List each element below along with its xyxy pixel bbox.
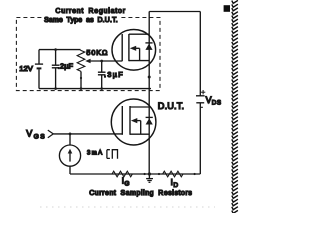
terminal: VDS top bar <box>196 95 205 97</box>
svg-text:V: V <box>26 129 32 139</box>
wire: top wire to right rail <box>149 11 200 13</box>
input terminal VGS chevron <box>48 130 54 138</box>
battery B1 12V <box>35 50 43 89</box>
MOSFET Q1 current regulator <box>112 30 156 71</box>
svg-text:D: D <box>173 182 178 189</box>
minus sign <box>200 106 203 108</box>
junction: ground node <box>148 172 151 175</box>
pulse waveform icon <box>107 150 118 159</box>
junction: RD right lead <box>194 173 196 175</box>
svg-text:Current Regulator: Current Regulator <box>55 8 125 15</box>
svg-text:Current Sampling Resistors: Current Sampling Resistors <box>89 190 192 197</box>
svg-text:12V: 12V <box>19 64 34 73</box>
dashed enclosure box (current regulator) <box>16 18 160 91</box>
junction: wiper node <box>100 60 103 63</box>
svg-text:G: G <box>124 180 129 187</box>
svg-text:Same Type as D.U.T.: Same Type as D.U.T. <box>44 17 118 24</box>
wire: bottom return wire <box>70 173 200 175</box>
capacitor C2 .3uF <box>98 61 106 89</box>
wire: inner top bus from battery to pot <box>39 49 80 51</box>
page edge hatch strip <box>232 0 238 213</box>
junction: current source tap <box>69 133 72 136</box>
junction: Q1 source node dot <box>148 76 151 79</box>
resistor RD (ID sampling) <box>163 171 183 177</box>
capacitor C1 .2uF <box>52 50 60 89</box>
svg-text:3mA: 3mA <box>87 151 102 157</box>
plus sign <box>201 90 205 94</box>
resistor RG (IG sampling) <box>112 171 132 177</box>
wire: gate wire VGS to Q2 <box>53 133 122 135</box>
potentiometer R1 50K <box>77 50 85 89</box>
junction: C2 bottom on bus <box>100 87 103 90</box>
wire: inner bottom bus of regulator box <box>39 88 151 90</box>
junction: RD left lead <box>158 173 160 175</box>
terminal: VDS bottom bar <box>196 102 204 104</box>
junction: pot bottom on bus <box>80 87 83 90</box>
faint scan speckle near bottom <box>40 206 215 208</box>
junction: RG right lead <box>144 173 146 175</box>
wire: right rail lower <box>199 103 201 174</box>
junction: C1 bottom on bus <box>54 87 57 90</box>
pot wiper arrow <box>85 59 122 64</box>
svg-text:V: V <box>206 95 212 105</box>
ground symbol <box>146 174 153 182</box>
svg-text:GS: GS <box>34 133 46 140</box>
printing artifact: black square <box>224 5 230 12</box>
junction: C1 top on bus <box>54 48 57 51</box>
junction: pot lead blob <box>80 77 82 79</box>
svg-text:D.U.T.: D.U.T. <box>158 101 184 111</box>
current source I1 3mA <box>59 134 80 174</box>
svg-text:.3µF: .3µF <box>104 70 123 79</box>
title: Same Type as D.U.T. <box>44 16 119 24</box>
MOSFET Q2 D.U.T. <box>111 99 156 145</box>
wire: right rail upper <box>199 12 201 96</box>
svg-text:.2µF: .2µF <box>58 62 74 71</box>
wire: drain rail (Q1 drain to DUT to sampling node) <box>148 12 150 175</box>
svg-text:50KΩ: 50KΩ <box>86 48 108 57</box>
svg-text:DS: DS <box>212 99 221 106</box>
